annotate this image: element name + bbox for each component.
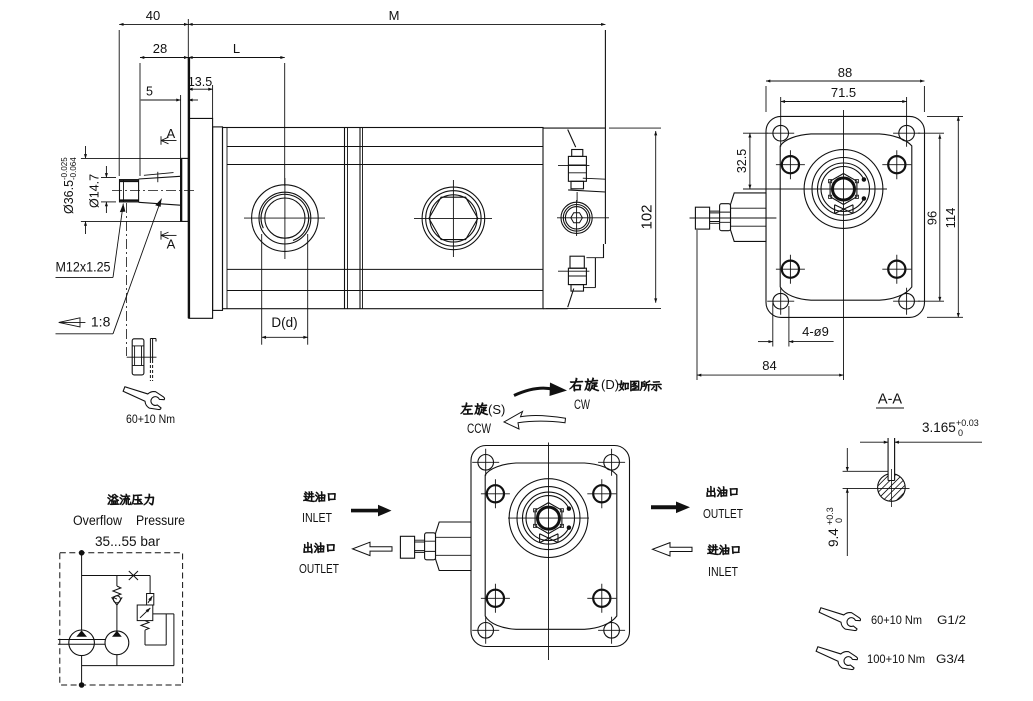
svg-text:CW: CW: [574, 397, 590, 412]
svg-text:Overflow: Overflow: [73, 513, 122, 528]
svg-text:CCW: CCW: [467, 421, 491, 436]
svg-text:L: L: [233, 41, 240, 56]
svg-text:INLET: INLET: [302, 510, 332, 525]
svg-text:1:8: 1:8: [91, 314, 111, 330]
svg-text:G1/2: G1/2: [937, 613, 966, 627]
svg-text:3.165: 3.165: [922, 420, 956, 435]
svg-text:(S): (S): [488, 402, 505, 417]
svg-text:M12x1.25: M12x1.25: [56, 259, 111, 275]
svg-text:A: A: [167, 237, 176, 252]
svg-text:13.5: 13.5: [188, 75, 212, 89]
svg-text:96: 96: [925, 211, 940, 225]
svg-text:G3/4: G3/4: [936, 652, 965, 666]
svg-text:35...55 bar: 35...55 bar: [95, 534, 161, 549]
svg-text:A-A: A-A: [878, 392, 903, 408]
svg-text:60+10 Nm: 60+10 Nm: [126, 414, 175, 426]
svg-text:M: M: [389, 8, 400, 23]
svg-text:40: 40: [146, 8, 160, 23]
svg-text:28: 28: [153, 41, 167, 56]
svg-text:OUTLET: OUTLET: [703, 506, 743, 521]
svg-text:Pressure: Pressure: [136, 513, 185, 528]
svg-text:-0.064: -0.064: [69, 157, 78, 180]
svg-text:INLET: INLET: [708, 564, 738, 579]
svg-text:60+10 Nm: 60+10 Nm: [871, 613, 922, 627]
svg-text:114: 114: [943, 208, 958, 229]
svg-text:4-ø9: 4-ø9: [802, 324, 829, 339]
svg-text:71.5: 71.5: [831, 85, 856, 100]
svg-text:84: 84: [762, 358, 776, 373]
svg-text:0: 0: [958, 428, 963, 438]
svg-text:D(d): D(d): [271, 315, 297, 330]
svg-text:(D): (D): [601, 377, 619, 392]
svg-text:32.5: 32.5: [735, 149, 749, 173]
svg-text:-0.025: -0.025: [60, 157, 69, 180]
svg-text:9.4: 9.4: [826, 528, 841, 547]
svg-text:+0.03: +0.03: [956, 418, 979, 428]
svg-text:88: 88: [838, 65, 852, 80]
svg-text:5: 5: [146, 85, 153, 99]
svg-text:A: A: [167, 126, 176, 141]
svg-text:Ø36.5: Ø36.5: [62, 180, 76, 214]
svg-text:OUTLET: OUTLET: [299, 561, 339, 576]
svg-text:0: 0: [834, 518, 844, 523]
svg-text:Ø14.7: Ø14.7: [88, 174, 102, 208]
svg-text:100+10 Nm: 100+10 Nm: [867, 652, 925, 666]
svg-text:102: 102: [639, 204, 656, 229]
